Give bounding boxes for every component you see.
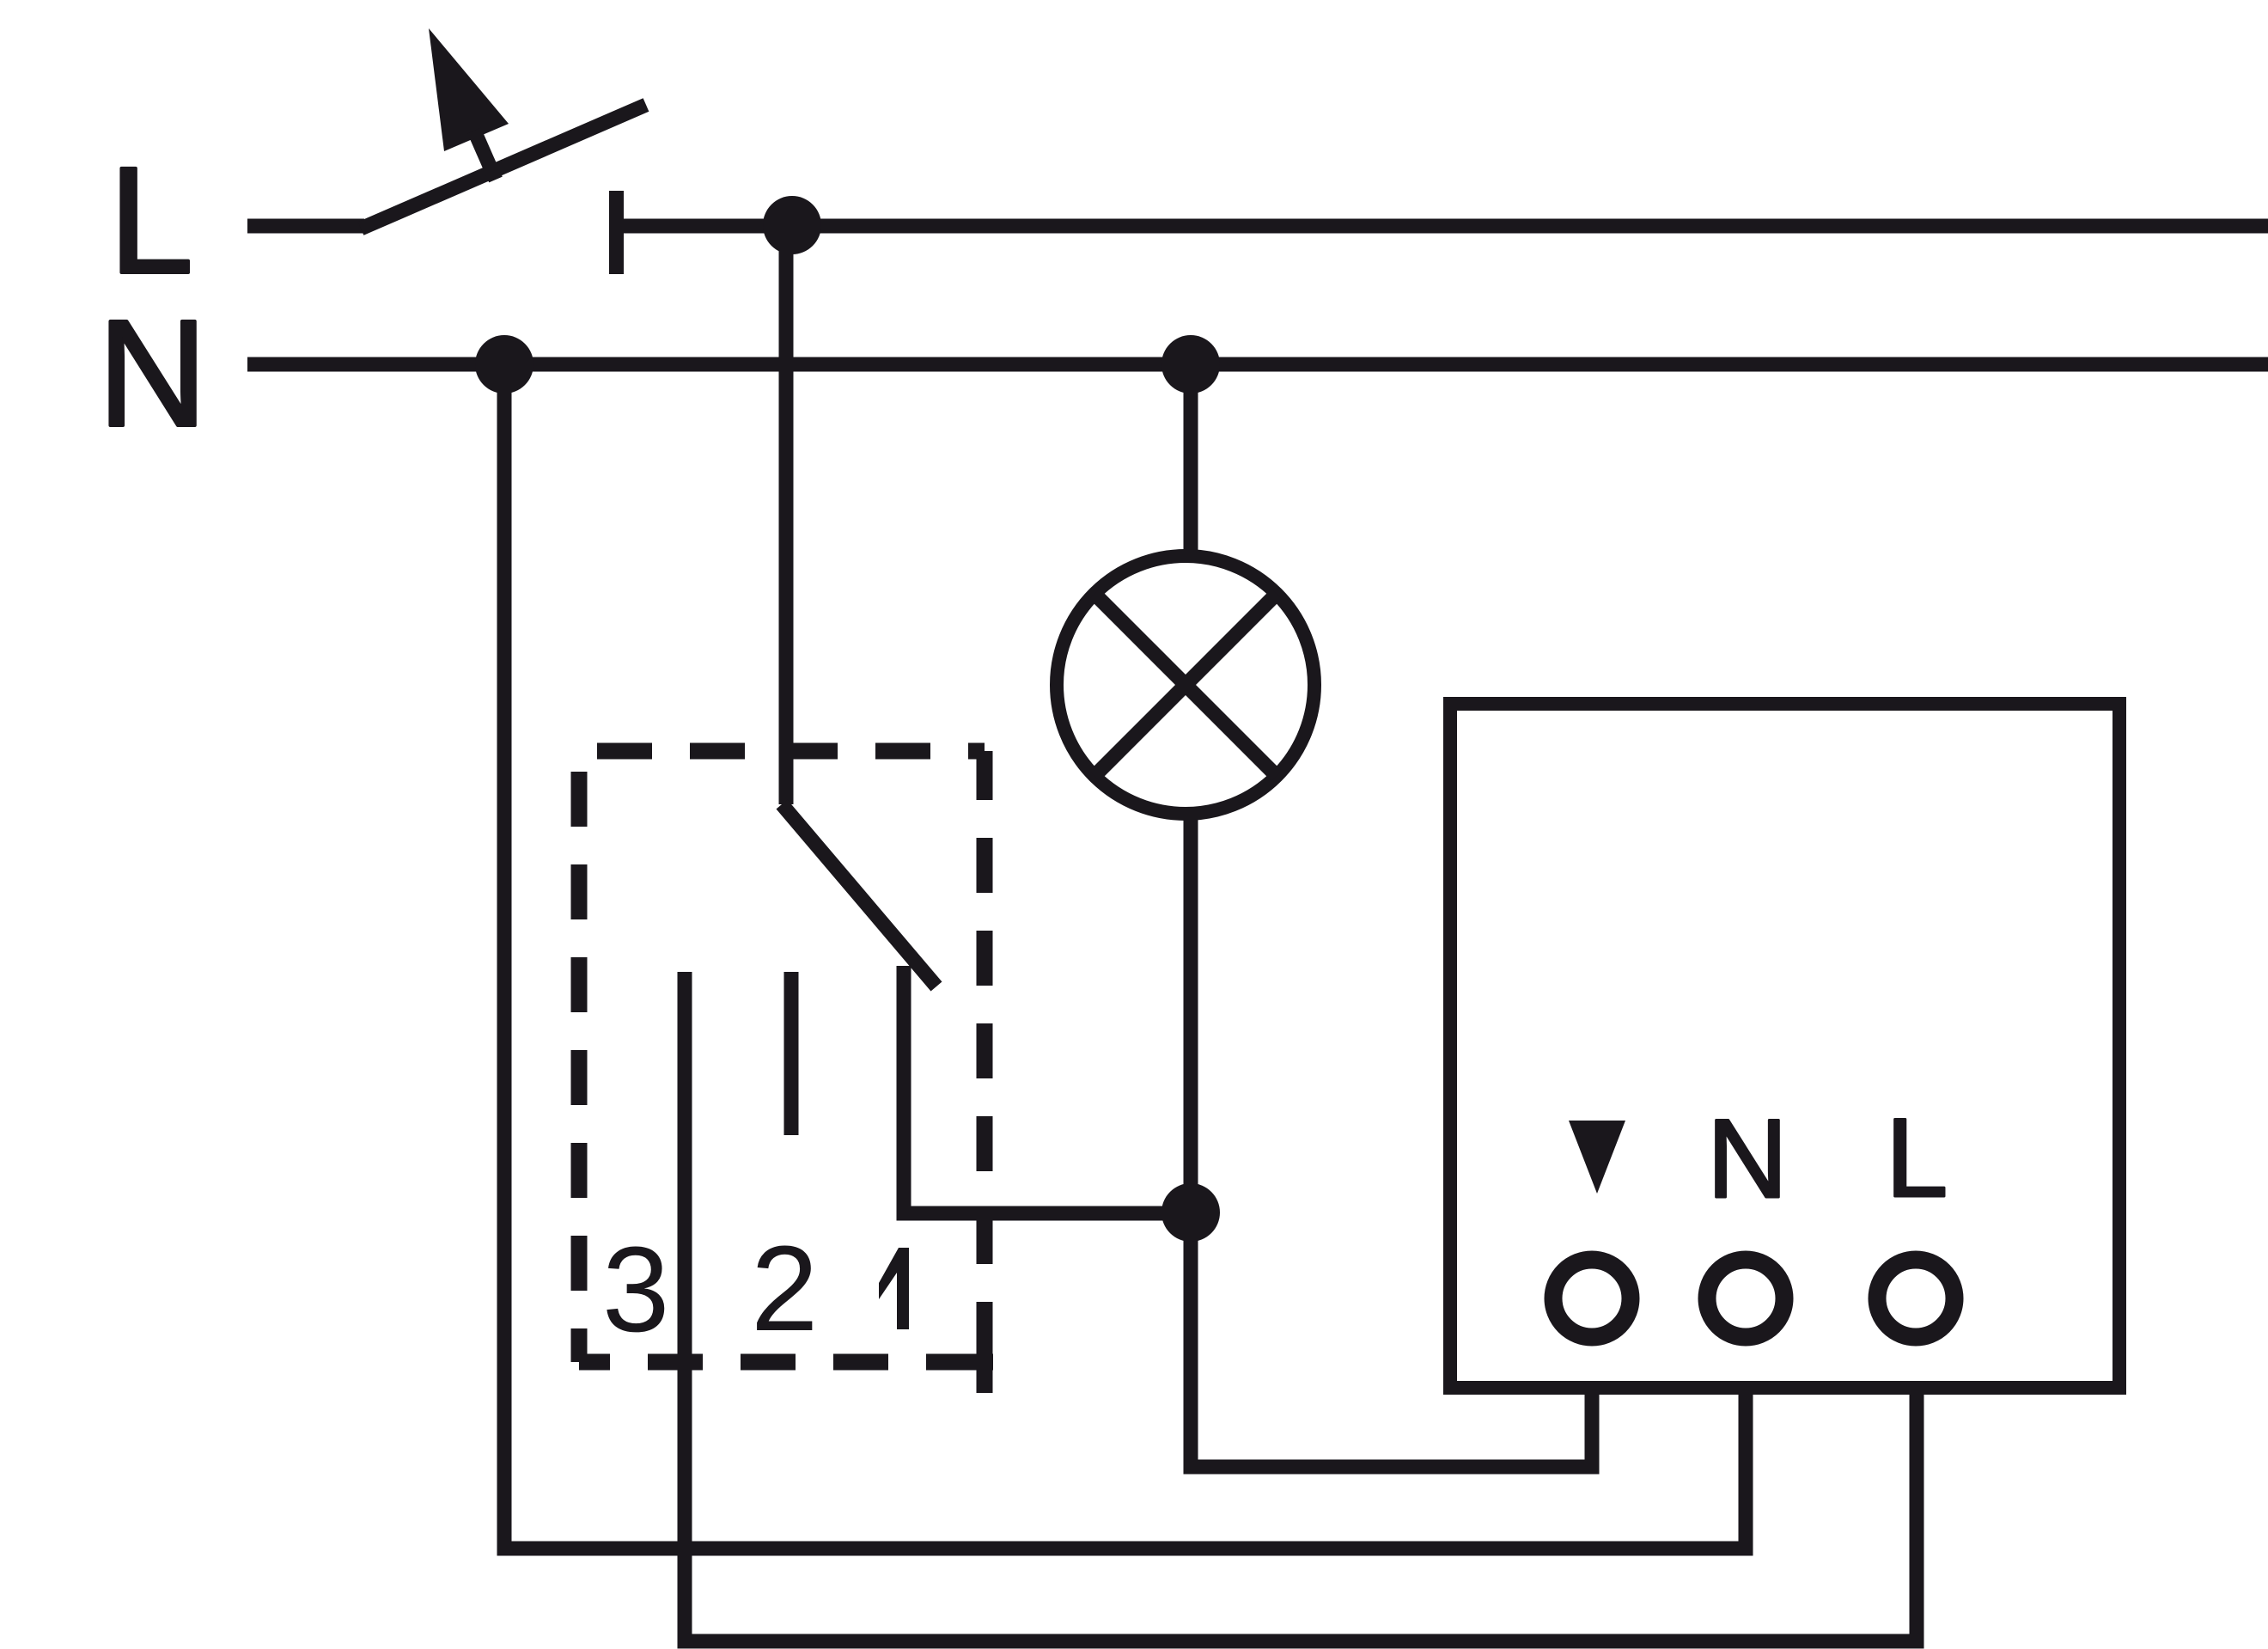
dimmer L terminal circle — [1877, 1260, 1954, 1337]
terminal 3 stub and wire down to bottom run and up to dimmer L terminal — [685, 972, 1917, 1641]
wire N drop to bottom run and to terminal N of dimmer — [504, 364, 1746, 1548]
dashed enclosure bottom edge — [579, 1354, 985, 1371]
wire N line — [247, 357, 2268, 372]
svg-text:3: 3 — [602, 1221, 669, 1357]
dimmer insert U1 box — [1450, 704, 2119, 1388]
switch S1 fixed contact bar — [609, 191, 624, 274]
dimmer arrow terminal circle — [1553, 1260, 1631, 1337]
lamp E1 cross stroke 1 — [1094, 594, 1277, 776]
lamp E1 circle — [1057, 556, 1314, 814]
svg-text:L: L — [109, 137, 193, 305]
terminal label 1 — [879, 1248, 909, 1329]
svg-text:N: N — [98, 290, 207, 458]
junction dot on N line (left) — [475, 335, 533, 394]
dashed enclosure bottom-right corner piece — [977, 1354, 993, 1393]
wire from L junction down to relay switch pivot — [779, 225, 794, 804]
terminal 2 stub — [784, 972, 799, 1135]
dashed enclosure of auxiliary switch: top edge — [579, 743, 985, 760]
switch S1 actuator arrow shaft — [474, 131, 496, 180]
junction dot on N line (lamp branch) — [1161, 335, 1220, 394]
dashed enclosure left edge — [571, 751, 588, 1362]
terminal 1 stub and wire to lamp junction — [904, 966, 1198, 1213]
dimmer N terminal circle — [1707, 1260, 1784, 1337]
wire L line left segment — [247, 219, 364, 234]
junction dot lamp/terminal-1 wire — [1161, 1183, 1220, 1242]
wire from N line down to lamp — [1184, 364, 1198, 557]
switch S1 blade — [361, 105, 646, 229]
dashed enclosure right edge — [977, 751, 993, 1362]
auxiliary switch S2 blade — [782, 804, 936, 986]
switch S1 actuator arrow head — [429, 28, 509, 151]
wire from lamp down then right and up to dimmer arrow terminal — [1191, 816, 1592, 1467]
wire L line right segment — [616, 219, 2268, 234]
junction dot on L line — [763, 196, 821, 254]
dimmer arrow terminal label — [1569, 1121, 1625, 1194]
svg-text:L: L — [1886, 1095, 1948, 1220]
svg-text:N: N — [1707, 1096, 1788, 1221]
lamp E1 cross stroke 2 — [1094, 594, 1277, 776]
svg-text:2: 2 — [751, 1220, 818, 1356]
